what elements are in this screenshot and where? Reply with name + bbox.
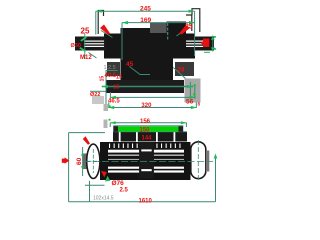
green bar bbox=[118, 126, 179, 131]
right shaft hatching bbox=[186, 41, 203, 42]
dim line D1 horizontal bbox=[96, 10, 195, 12]
right tower inner outline bbox=[186, 15, 192, 31]
svg-text:2.5: 2.5 bbox=[120, 188, 129, 194]
dim D4 line bbox=[110, 96, 196, 98]
dim D5 right riser bbox=[195, 102, 197, 107]
svg-text:15: 15 bbox=[113, 84, 119, 90]
bar dim arrows bbox=[110, 121, 116, 124]
right shaft red arrow bbox=[201, 40, 205, 46]
bracket row above roller bbox=[113, 132, 187, 142]
left dim A red arrow bbox=[65, 157, 70, 163]
dim D3 right extension bbox=[189, 82, 191, 97]
top view body center block bbox=[121, 28, 174, 93]
left shaft dim slash bottom bbox=[79, 47, 86, 52]
right shaft dim end dots bbox=[214, 36, 216, 38]
svg-text:15: 15 bbox=[116, 75, 122, 81]
D1 arrows bbox=[96, 10, 102, 13]
leader left body corner bbox=[101, 31, 113, 38]
hub white band lower bbox=[141, 169, 151, 171]
top view left foot bbox=[107, 62, 120, 76]
leader right body corner bbox=[177, 29, 187, 37]
roller hatching stripes right bbox=[154, 150, 184, 153]
svg-text:46.5: 46.5 bbox=[108, 99, 120, 105]
lower-left leader horizontal bbox=[85, 184, 105, 186]
left ext horizontal bbox=[69, 132, 105, 134]
top view right wing bbox=[172, 34, 195, 59]
right tower outer outline bbox=[192, 9, 200, 32]
green bar right cap bbox=[179, 126, 184, 132]
inter-view gray column b bbox=[104, 120, 108, 129]
left small dim vertical bbox=[105, 71, 107, 105]
svg-text:28: 28 bbox=[177, 67, 185, 74]
grip dot a bbox=[194, 84, 196, 86]
svg-text:1610: 1610 bbox=[139, 198, 153, 204]
top view raised center gray step bbox=[150, 23, 168, 33]
svg-text:40.5: 40.5 bbox=[105, 73, 117, 79]
dim D3 long line bbox=[102, 86, 193, 88]
green bar dim left riser bbox=[109, 123, 111, 127]
svg-text:M12: M12 bbox=[80, 55, 92, 61]
left small dim y91 bbox=[90, 90, 106, 92]
svg-text:60: 60 bbox=[76, 157, 83, 165]
dim D4 right riser bbox=[194, 85, 196, 99]
top view left wing bbox=[104, 34, 121, 59]
top view right foot bbox=[175, 62, 194, 76]
svg-text:320: 320 bbox=[141, 103, 152, 109]
top view left lower foot bbox=[92, 96, 104, 104]
M12 leader bbox=[89, 53, 97, 59]
right red leader arrow bbox=[179, 25, 190, 35]
right cap centerline vertical bbox=[197, 140, 199, 180]
left small dim horizontal bbox=[106, 70, 118, 72]
grip dot d bbox=[109, 119, 111, 121]
left red leader arrow bbox=[100, 25, 111, 35]
roller center hub bbox=[139, 142, 154, 179]
svg-text:1:2.5: 1:2.5 bbox=[104, 65, 116, 71]
cap bottom green arrow bbox=[105, 176, 110, 182]
right shaft lower tick bbox=[204, 52, 210, 53]
dim D4 left riser bbox=[109, 92, 111, 97]
green bar top edge bbox=[113, 125, 183, 126]
bottom right riser arrow bbox=[214, 154, 218, 159]
svg-text:Ø76: Ø76 bbox=[112, 180, 125, 187]
top view raised center block bbox=[167, 22, 187, 38]
green bar dim line bbox=[110, 122, 186, 124]
inter-view gray column a bbox=[104, 104, 109, 111]
svg-text:150: 150 bbox=[140, 128, 151, 134]
left tower outline bbox=[98, 11, 103, 35]
svg-text:56: 56 bbox=[186, 99, 194, 106]
grip dot c bbox=[109, 105, 111, 107]
svg-text:25: 25 bbox=[81, 27, 90, 36]
dim D1 right extension bbox=[194, 11, 196, 56]
D2 arrows bbox=[122, 21, 128, 24]
svg-text:Ø22: Ø22 bbox=[90, 92, 100, 98]
left shaft dim slash top bbox=[80, 36, 87, 41]
green bar left cap bbox=[113, 126, 118, 132]
left end cap ellipse bbox=[87, 144, 100, 178]
lower-left leader vertical bbox=[89, 181, 91, 202]
left cap stub bbox=[83, 154, 88, 170]
svg-text:Ø30: Ø30 bbox=[71, 43, 81, 49]
dim D5 line bbox=[108, 107, 197, 109]
right shaft dia dim line bbox=[212, 36, 214, 52]
D3 arrows bbox=[102, 85, 108, 88]
bracket row gaps bbox=[119, 132, 121, 142]
grip dot b bbox=[193, 93, 195, 95]
right shaft dim arrows bbox=[211, 36, 215, 40]
svg-text:156: 156 bbox=[140, 119, 151, 125]
D5 arrows bbox=[108, 106, 114, 109]
roller body bbox=[100, 142, 191, 180]
mid leader elbow bbox=[130, 67, 151, 75]
right shaft bbox=[188, 37, 214, 51]
left shaft centerline vertical bbox=[84, 34, 86, 60]
svg-text:144: 144 bbox=[142, 136, 153, 142]
svg-text:245: 245 bbox=[140, 5, 151, 12]
dim D5 left riser bbox=[108, 102, 110, 107]
left dim vertical B bbox=[82, 147, 84, 176]
left shaft bbox=[75, 37, 106, 51]
dim D1 left extension bbox=[95, 11, 97, 34]
svg-text:169: 169 bbox=[140, 17, 151, 24]
svg-text:45: 45 bbox=[126, 61, 134, 68]
bracket row top edge line bbox=[113, 130, 187, 133]
D4 arrows bbox=[110, 96, 116, 99]
right cap stub bbox=[206, 151, 210, 172]
svg-text:15: 15 bbox=[99, 76, 105, 82]
right end cap bbox=[191, 142, 206, 179]
left shaft hatching bbox=[84, 41, 104, 42]
left dim vertical A bbox=[68, 133, 70, 202]
top view right lower foot bbox=[185, 79, 201, 103]
top view bottom plate band bbox=[106, 80, 184, 93]
cap bottom red arrow bbox=[101, 171, 107, 177]
right leader diagonal bbox=[173, 68, 185, 79]
bottom dim line bbox=[69, 201, 216, 203]
green bar dim right riser bbox=[185, 123, 187, 127]
dim D2 left extension bbox=[121, 23, 123, 60]
roller teeth band ticks bbox=[109, 144, 181, 149]
roller centerline bbox=[83, 161, 213, 163]
cap top red leader arrow bbox=[83, 136, 90, 145]
roller hatching stripes left bbox=[108, 150, 139, 153]
dim line D2 bbox=[122, 22, 195, 24]
raised block extension line bbox=[167, 23, 169, 40]
svg-text:102x14.5: 102x14.5 bbox=[93, 196, 114, 202]
bottom dim right riser bbox=[215, 155, 217, 202]
vertical B ticks bbox=[81, 153, 85, 156]
hub white band upper bbox=[141, 149, 151, 151]
left cap crosshair bbox=[88, 149, 100, 173]
